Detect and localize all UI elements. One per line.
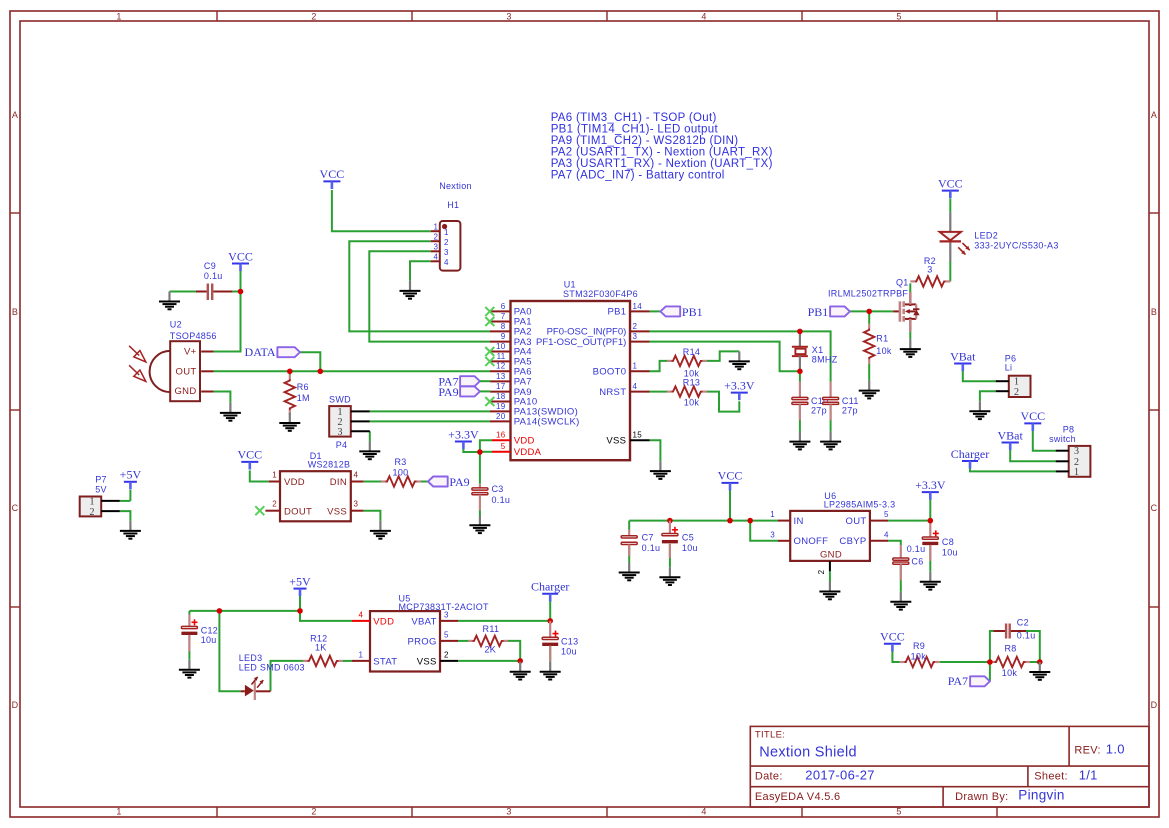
junction [238, 289, 244, 295]
svg-text:8: 8 [501, 322, 506, 331]
capacitor C2 [993, 618, 1035, 641]
svg-text:VCC: VCC [237, 448, 262, 462]
svg-text:1: 1 [272, 470, 277, 479]
capacitor C12 [181, 615, 218, 652]
junction [217, 608, 223, 614]
svg-text:OUT: OUT [846, 516, 867, 527]
svg-text:ONOFF: ONOFF [794, 536, 829, 547]
ground [179, 660, 200, 678]
no-connect DOUT [255, 506, 264, 515]
svg-text:R11: R11 [483, 624, 500, 634]
svg-text:9: 9 [501, 332, 506, 341]
ground [729, 351, 750, 369]
ground [920, 572, 941, 590]
svg-text:VBAT: VBAT [411, 617, 436, 628]
ground [859, 381, 880, 399]
wire [909, 283, 911, 292]
wire [888, 541, 901, 545]
wire [232, 291, 240, 293]
svg-text:18: 18 [496, 392, 506, 401]
svg-text:4: 4 [354, 470, 359, 479]
svg-text:Sheet:: Sheet: [1034, 771, 1068, 783]
junction [987, 659, 993, 665]
wire [188, 635, 190, 660]
svg-text:PB1: PB1 [808, 305, 829, 319]
LED LED3 [239, 653, 305, 700]
wire [549, 600, 551, 621]
svg-text:3: 3 [338, 427, 343, 438]
ground [820, 432, 841, 450]
wire [650, 391, 668, 393]
net flag VCC [228, 249, 253, 271]
svg-text:2: 2 [311, 807, 316, 817]
svg-text:R1: R1 [876, 333, 888, 343]
svg-text:+3.3V: +3.3V [448, 427, 479, 441]
svg-text:NRST: NRST [599, 387, 626, 398]
connector P4 SWD [329, 394, 370, 449]
svg-text:OUT: OUT [176, 367, 197, 378]
wire [458, 620, 550, 622]
wire [363, 481, 381, 483]
wire [479, 452, 481, 484]
svg-text:C2: C2 [1017, 618, 1029, 628]
ground [370, 521, 391, 539]
svg-text:13: 13 [496, 372, 506, 381]
svg-text:2: 2 [633, 322, 638, 331]
svg-text:10u: 10u [682, 543, 698, 553]
svg-text:3: 3 [433, 243, 438, 252]
svg-text:6: 6 [501, 302, 506, 311]
svg-text:5: 5 [896, 12, 901, 22]
svg-text:PB1: PB1 [682, 305, 703, 319]
svg-text:3: 3 [506, 807, 511, 817]
wire [214, 392, 231, 403]
wire [332, 190, 431, 231]
ground [819, 582, 840, 600]
net flag PA7 [438, 375, 480, 389]
svg-text:X1: X1 [812, 345, 824, 355]
capacitor C5 [662, 521, 698, 558]
wire [989, 662, 991, 681]
net flag PA9 [428, 475, 470, 489]
svg-text:PA2 (USART1_TX) - Nextion (UAR: PA2 (USART1_TX) - Nextion (UART_RX) [551, 146, 773, 158]
ground [900, 339, 921, 357]
net flag +3.3V [915, 478, 946, 500]
net flag Charger [951, 447, 989, 469]
wire [892, 651, 899, 662]
wire [120, 500, 131, 502]
wire [480, 440, 492, 452]
svg-text:Q1: Q1 [896, 277, 909, 287]
ground [359, 441, 380, 459]
capacitor C8 [922, 521, 958, 561]
svg-text:2: 2 [817, 569, 826, 574]
svg-text:1/1: 1/1 [1079, 768, 1098, 783]
svg-text:1: 1 [633, 362, 638, 371]
junction [1037, 659, 1043, 665]
svg-text:switch: switch [1049, 434, 1076, 444]
resistor R6 [285, 375, 310, 415]
svg-text:VBat: VBat [998, 428, 1024, 442]
svg-text:100: 100 [393, 467, 409, 477]
svg-text:3: 3 [770, 530, 775, 539]
net flag PA9 [438, 385, 480, 399]
svg-text:P4: P4 [336, 440, 348, 450]
svg-text:GND: GND [820, 550, 842, 561]
wire [458, 640, 468, 642]
svg-text:VSS: VSS [606, 436, 626, 447]
net flag PB1 [660, 305, 702, 319]
svg-text:PB1: PB1 [607, 307, 626, 318]
svg-text:17: 17 [496, 382, 506, 391]
ground [650, 461, 671, 479]
ground [510, 662, 531, 680]
svg-text:Pingvin: Pingvin [1018, 787, 1064, 802]
svg-text:Nextion Shield: Nextion Shield [759, 745, 857, 761]
capacitor C10 [792, 382, 829, 421]
svg-text:16: 16 [496, 431, 506, 440]
svg-text:1.0: 1.0 [1106, 742, 1125, 757]
wire [170, 291, 196, 293]
ground [540, 662, 561, 680]
svg-text:VDD: VDD [514, 436, 535, 447]
svg-text:A: A [12, 110, 18, 120]
svg-text:DOUT: DOUT [284, 506, 312, 517]
resistor R11 [468, 624, 508, 654]
junction [547, 618, 553, 624]
wire [219, 611, 240, 691]
wire [750, 521, 778, 541]
svg-text:U1: U1 [564, 279, 576, 289]
svg-text:VCC: VCC [718, 469, 743, 483]
svg-text:Date:: Date: [755, 771, 783, 783]
svg-text:1: 1 [1074, 467, 1079, 478]
svg-text:VSS: VSS [327, 506, 347, 517]
wire [214, 370, 491, 372]
wire [929, 545, 931, 572]
svg-text:10u: 10u [201, 635, 217, 645]
svg-text:11: 11 [497, 352, 506, 361]
wire [214, 271, 241, 352]
svg-text:10u: 10u [561, 646, 577, 656]
resistor R13 [667, 378, 707, 408]
svg-text:10: 10 [496, 342, 506, 351]
ground [890, 592, 911, 610]
wire [271, 661, 304, 691]
svg-text:2: 2 [311, 12, 316, 22]
svg-text:VCC: VCC [320, 167, 345, 181]
svg-text:2: 2 [433, 232, 438, 241]
svg-text:R9: R9 [913, 641, 925, 651]
svg-text:14: 14 [633, 302, 643, 311]
svg-text:+5V: +5V [120, 468, 142, 482]
svg-text:VCC: VCC [228, 249, 253, 263]
ground [969, 401, 990, 419]
svg-text:+3.3V: +3.3V [724, 378, 755, 392]
svg-text:D: D [1151, 700, 1158, 710]
wire [650, 331, 831, 381]
svg-text:EasyEDA V4.5.6: EasyEDA V4.5.6 [755, 791, 841, 803]
wire [949, 262, 951, 282]
svg-text:2017-06-27: 2017-06-27 [805, 768, 875, 783]
svg-text:1: 1 [116, 807, 121, 817]
svg-text:Li: Li [1005, 363, 1013, 373]
junction [928, 518, 934, 524]
svg-text:A: A [1151, 110, 1157, 120]
svg-text:2: 2 [90, 507, 95, 518]
wire [799, 404, 801, 431]
wire [1010, 450, 1055, 462]
connector P7 [80, 475, 120, 518]
wire [799, 371, 801, 381]
wire [129, 490, 131, 501]
svg-text:Drawn By:: Drawn By: [955, 791, 1008, 803]
wire [628, 521, 630, 530]
ground [659, 567, 680, 585]
svg-text:STM32F030F4P6: STM32F030F4P6 [563, 289, 638, 299]
wire [650, 342, 800, 372]
net flag VCC [880, 630, 905, 652]
no-connect PA1 [485, 317, 494, 326]
ground [619, 563, 640, 581]
svg-text:DATA: DATA [245, 345, 276, 359]
wire [480, 390, 491, 392]
wire [300, 352, 320, 371]
svg-text:U2: U2 [170, 320, 182, 330]
wire [963, 370, 996, 381]
svg-text:STAT: STAT [373, 657, 397, 668]
svg-text:3: 3 [354, 500, 359, 509]
svg-text:CBYP: CBYP [839, 536, 866, 547]
junction [318, 369, 324, 375]
wire [850, 310, 893, 312]
junction [517, 658, 523, 664]
resistor R9 [900, 641, 940, 667]
net flag +5V [289, 574, 311, 596]
capacitor C13 [542, 621, 578, 662]
wire [888, 520, 930, 522]
junction [287, 369, 293, 375]
wire [949, 199, 951, 213]
junction [667, 518, 673, 524]
svg-text:1: 1 [433, 222, 438, 231]
wire [990, 631, 994, 662]
wire [289, 371, 291, 374]
ground [400, 281, 421, 299]
wire [463, 449, 480, 452]
svg-text:TITLE:: TITLE: [755, 730, 785, 741]
svg-text:3: 3 [444, 248, 449, 257]
capacitor C7 [621, 530, 660, 557]
svg-text:C8: C8 [942, 537, 954, 547]
charger U5 MCP73831T-2ACIOT [352, 594, 489, 672]
wire [830, 404, 832, 431]
svg-text:VDDA: VDDA [514, 447, 542, 458]
svg-text:19: 19 [496, 402, 506, 411]
wire [120, 511, 131, 521]
wire [729, 490, 731, 520]
svg-text:B: B [1151, 307, 1157, 317]
svg-text:1K: 1K [315, 643, 327, 653]
wire [669, 544, 671, 567]
crystal X1 8MHZ [792, 331, 838, 371]
wire [421, 481, 428, 483]
connector P6 Li [996, 354, 1031, 398]
svg-text:R3: R3 [394, 457, 406, 467]
svg-text:0.1u: 0.1u [492, 495, 511, 505]
wire [410, 261, 431, 281]
svg-text:5V: 5V [95, 485, 107, 495]
wire [980, 391, 996, 401]
wire [970, 468, 1056, 471]
net flag VCC [237, 448, 262, 470]
svg-text:VCC: VCC [1020, 409, 1045, 423]
svg-text:1: 1 [770, 510, 775, 519]
svg-text:PA14(SWCLK): PA14(SWCLK) [514, 417, 580, 428]
svg-text:Charger: Charger [951, 447, 989, 461]
svg-text:P8: P8 [1063, 424, 1075, 434]
svg-text:PROG: PROG [408, 637, 437, 648]
wire [189, 610, 300, 612]
svg-text:R14: R14 [683, 347, 700, 357]
wire [707, 351, 739, 361]
wire [349, 241, 490, 331]
svg-text:27p: 27p [842, 405, 858, 415]
no-connect PA0 [485, 307, 494, 316]
junction [747, 518, 753, 524]
svg-text:5: 5 [501, 442, 506, 451]
svg-text:4: 4 [884, 530, 889, 539]
junction [297, 608, 303, 614]
connector H1 Nextion [431, 181, 472, 271]
wire [940, 661, 990, 663]
svg-text:3: 3 [927, 265, 932, 275]
no-connect PA10 [485, 397, 494, 406]
capacitor C11 [823, 382, 859, 421]
node info text [551, 112, 773, 182]
svg-text:IN: IN [794, 516, 804, 527]
wire [1026, 631, 1040, 662]
ground [279, 413, 300, 431]
svg-text:1M: 1M [297, 393, 310, 403]
svg-text:20: 20 [496, 412, 506, 421]
ground [220, 403, 241, 421]
junction [727, 518, 733, 524]
svg-text:PF1-OSC_OUT(PF1): PF1-OSC_OUT(PF1) [536, 337, 626, 348]
wire [363, 511, 380, 521]
svg-text:4: 4 [358, 611, 363, 620]
svg-text:TSOP4856: TSOP4856 [170, 331, 217, 341]
ground [469, 515, 490, 533]
svg-text:P7: P7 [95, 475, 107, 485]
wire [929, 499, 931, 520]
svg-text:C: C [1151, 503, 1158, 513]
svg-text:3: 3 [444, 611, 449, 620]
svg-text:10k: 10k [684, 397, 700, 407]
wire [188, 611, 190, 615]
svg-text:5: 5 [896, 807, 901, 817]
transistor Q1 IRLML2502TRPBF [828, 277, 920, 331]
svg-text:5: 5 [444, 631, 449, 640]
svg-text:LED3: LED3 [239, 653, 263, 663]
wire [369, 251, 490, 341]
svg-text:R6: R6 [297, 382, 309, 392]
svg-text:C6: C6 [911, 557, 923, 567]
ground [120, 521, 141, 539]
svg-text:REV:: REV: [1074, 745, 1100, 757]
resistor R2 [910, 256, 950, 287]
svg-text:PA9: PA9 [449, 475, 469, 489]
wire [300, 595, 352, 621]
svg-text:R8: R8 [1004, 643, 1016, 653]
wire [480, 380, 491, 382]
net flag VBat [998, 428, 1024, 450]
svg-text:BOOT0: BOOT0 [593, 367, 627, 378]
junction [866, 309, 872, 315]
svg-text:C5: C5 [682, 533, 694, 543]
junction [797, 369, 803, 375]
svg-text:4: 4 [633, 382, 638, 391]
resistor R12 [303, 634, 343, 666]
svg-text:10u: 10u [942, 547, 958, 557]
connector P8 switch [1049, 424, 1090, 478]
wire [650, 310, 661, 312]
ground [789, 432, 810, 450]
svg-text:DIN: DIN [330, 477, 347, 488]
net flag PB1 [808, 305, 850, 319]
wire [370, 420, 490, 422]
svg-text:PA9 (TIM1_CH2) - WS2812b (DIN): PA9 (TIM1_CH2) - WS2812b (DIN) [551, 135, 739, 147]
capacitor C9 [196, 261, 233, 300]
ground [1029, 662, 1050, 680]
svg-text:4: 4 [444, 258, 449, 267]
resistor R3 [381, 457, 421, 487]
svg-text:3: 3 [506, 12, 511, 22]
wire [1033, 431, 1056, 451]
svg-text:VBat: VBat [950, 349, 976, 363]
svg-text:C7: C7 [642, 533, 654, 543]
svg-text:PA6 (TIM3_CH1) - TSOP (Out): PA6 (TIM3_CH1) - TSOP (Out) [551, 112, 717, 124]
wire [829, 571, 831, 581]
svg-text:GND: GND [174, 386, 196, 397]
wire [369, 431, 371, 441]
svg-text:4: 4 [433, 253, 438, 262]
svg-text:Nextion: Nextion [439, 181, 472, 191]
net flag VCC [938, 176, 963, 198]
LED driver D1 WS2812B [265, 451, 363, 521]
wire [650, 361, 668, 371]
svg-text:2: 2 [444, 651, 449, 660]
svg-text:2K: 2K [484, 645, 496, 655]
svg-text:1: 1 [358, 651, 363, 660]
svg-text:1: 1 [116, 12, 121, 22]
svg-text:B: B [12, 307, 18, 317]
resistor R14 [667, 347, 707, 379]
svg-text:7: 7 [501, 312, 506, 321]
svg-text:D: D [12, 700, 19, 710]
svg-text:C: C [12, 503, 19, 513]
svg-text:4: 4 [701, 807, 706, 817]
svg-text:LP2985AIM5-3.3: LP2985AIM5-3.3 [824, 500, 896, 510]
svg-text:R13: R13 [683, 378, 700, 388]
regulator U6 LP2985AIM5-3.3 [770, 491, 895, 574]
capacitor C3 [472, 484, 510, 511]
wire [868, 311, 870, 324]
svg-text:C13: C13 [561, 637, 578, 647]
svg-text:IRLML2502TRPBF: IRLML2502TRPBF [828, 289, 908, 299]
svg-text:10k: 10k [911, 651, 927, 661]
capacitor C6 [893, 544, 926, 580]
